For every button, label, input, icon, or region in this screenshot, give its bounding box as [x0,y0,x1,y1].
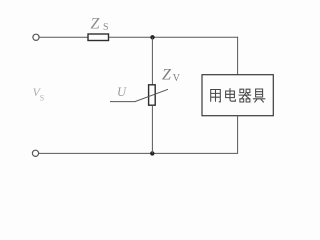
node junction top [150,35,154,39]
label ZS [91,16,109,34]
label VS (source) [33,85,45,103]
char 电 [226,89,236,102]
wire varistor branch upper [151,37,153,85]
svg-text:Z: Z [91,16,101,33]
svg-text:S: S [40,94,44,103]
char 具 [253,89,264,102]
label 用电器具 (drawn) [211,89,265,102]
char 器 [239,89,251,102]
svg-text:Z: Z [162,67,172,84]
svg-text:V: V [173,73,181,84]
wire top from terminal to resistor [39,36,88,38]
char 用 [211,90,221,102]
svg-text:U: U [117,85,127,99]
label ZV [162,67,181,85]
wire from appliance box bottom to bottom rail [39,116,238,154]
resistor ZS [88,34,109,41]
svg-text:S: S [103,22,109,33]
terminal top-left [33,34,39,40]
varistor ZV body [149,85,156,105]
varistor diagonal with tail (voltage dependence symbol) [110,89,168,101]
wire top from resistor to right corner [109,36,238,38]
appliance box [202,75,273,116]
terminal bottom-left [32,150,38,156]
node junction bottom [150,151,154,155]
wire right vertical into appliance box [237,37,239,75]
wire varistor branch lower [151,105,153,153]
